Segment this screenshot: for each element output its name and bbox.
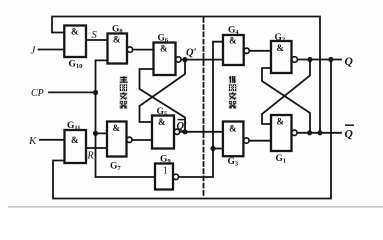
svg-text:&: & <box>71 27 79 37</box>
svg-text:Q: Q <box>345 56 353 68</box>
node: Qbar' junction <box>182 129 187 134</box>
annotation: slave flip-flop chinese text <box>229 76 237 109</box>
label & of G5 <box>158 117 166 127</box>
svg-text:G10: G10 <box>69 60 83 71</box>
node: Q junction to slave cross-coupling <box>307 57 312 62</box>
net label S <box>92 30 98 41</box>
divider: master/slave dashed line <box>203 18 205 196</box>
designator G6 <box>158 34 169 45</box>
node: Q' junction <box>182 57 187 62</box>
svg-text:S: S <box>92 30 98 41</box>
nand gate G5 <box>152 116 180 149</box>
net label R <box>87 151 94 162</box>
nand gate G8 <box>108 34 133 64</box>
nand gate G4 <box>223 35 249 65</box>
designator G2 <box>275 33 286 44</box>
designator G11 <box>67 121 81 132</box>
scan artifact bottom <box>8 206 383 207</box>
designator G8 <box>112 25 123 36</box>
svg-text:&: & <box>277 43 285 53</box>
designator G5 <box>157 107 168 118</box>
designator G3 <box>228 157 239 168</box>
wire: G7 output to G5 <box>133 139 152 141</box>
wire: CPbar line (G9 output to G4 and G3) <box>179 42 223 177</box>
svg-text:1: 1 <box>163 166 168 177</box>
svg-text:&: & <box>277 117 285 127</box>
wire: K input line <box>40 139 65 141</box>
wire: master cross-coupling Qbar' to G6 input <box>140 69 186 132</box>
nand gate G11 <box>65 130 87 163</box>
label & of G1 <box>277 117 285 127</box>
svg-text:R: R <box>87 151 94 162</box>
wire: Q' line (G6 output to G4) <box>181 59 223 61</box>
wire: Qbar' line (G5 output to G3) <box>180 131 223 133</box>
svg-text:&: & <box>160 44 168 54</box>
nand gate G7 <box>107 122 132 157</box>
svg-text:&: & <box>71 135 79 145</box>
wire: slave cross-coupling Qbar to G2 input <box>262 68 310 133</box>
svg-text:Q′: Q′ <box>186 48 197 59</box>
svg-text:G8: G8 <box>112 25 123 36</box>
net label Qbar' <box>177 120 188 132</box>
svg-text:&: & <box>113 35 121 45</box>
svg-text:G11: G11 <box>67 121 81 132</box>
label & of G10 <box>71 27 79 37</box>
svg-text:J: J <box>31 45 37 57</box>
node: Qbar junction to slave cross-coupling <box>307 130 312 135</box>
wire: G8 output to G6 <box>133 49 154 51</box>
svg-text:&: & <box>158 117 166 127</box>
svg-text:Q: Q <box>345 129 353 141</box>
wire: Q feedback (bottom rail from Q line to G11 lower input) <box>53 60 331 199</box>
node: CPbar junction at G3 <box>210 146 215 151</box>
nand gate G1 <box>271 115 297 151</box>
svg-text:G4: G4 <box>228 26 239 37</box>
wire: Qbar output line <box>297 132 341 134</box>
label & of G11 <box>71 135 79 145</box>
wire: S (G10 output to G8) <box>86 39 108 41</box>
node: Qbar junction to top feedback <box>317 130 322 135</box>
pin label K <box>28 135 37 147</box>
svg-text:Q′: Q′ <box>177 121 188 132</box>
svg-text:G6: G6 <box>158 34 169 45</box>
wire: Q output line <box>298 59 341 61</box>
wire: master cross-coupling Q' to G5 input <box>140 60 186 122</box>
pin label CP <box>31 88 44 99</box>
svg-text:G2: G2 <box>275 33 286 44</box>
svg-text:&: & <box>113 123 121 133</box>
designator G4 <box>228 26 239 37</box>
svg-text:&: & <box>229 124 237 134</box>
wire: G3 output to G1 <box>249 140 271 142</box>
label & of G8 <box>113 35 121 45</box>
inverter G9 <box>155 164 179 190</box>
label & of G3 <box>229 124 237 134</box>
svg-text:G9: G9 <box>160 155 171 166</box>
designator G9 <box>160 155 171 166</box>
nand gate G3 <box>223 122 249 157</box>
wire: CP vertical distribution (to G8, G7, G9) <box>96 60 156 177</box>
net label Q' <box>186 48 197 59</box>
wire: J input line <box>39 49 65 51</box>
label & of G4 <box>229 36 237 46</box>
designator G10 <box>69 60 83 71</box>
output label Qbar <box>345 125 355 140</box>
label & of G6 <box>160 44 168 54</box>
label 1 of G9 <box>163 166 168 177</box>
svg-text:CP: CP <box>31 88 44 99</box>
wire: R (G11 output to G7) <box>86 147 107 149</box>
designator G7 <box>110 162 121 173</box>
node: G7 CP junction <box>93 131 98 136</box>
label & of G7 <box>113 123 121 133</box>
node: CP junction <box>93 90 98 95</box>
wire: G4 output to G2 <box>250 50 271 52</box>
label & of G2 <box>277 43 285 53</box>
svg-text:G3: G3 <box>228 157 239 168</box>
node: Q junction to bottom feedback <box>328 57 333 62</box>
svg-text:&: & <box>229 36 237 46</box>
annotation: master flip-flop chinese text <box>120 76 128 109</box>
wire: Qbar feedback (top rail from Qbar line to G10 upper input) <box>52 17 320 133</box>
nand gate G10 <box>64 26 86 58</box>
svg-text:G7: G7 <box>110 162 121 173</box>
wire: CP input line <box>49 91 96 93</box>
designator G1 <box>276 154 287 165</box>
svg-text:G1: G1 <box>276 154 287 165</box>
wire: slave cross-coupling Q to G1 input <box>262 60 310 125</box>
svg-text:K: K <box>28 135 37 147</box>
svg-text:G5: G5 <box>157 107 168 118</box>
nand gate G6 <box>154 43 182 76</box>
output label Q <box>345 56 353 68</box>
pin label J <box>31 45 37 57</box>
nand gate G2 <box>271 41 297 73</box>
